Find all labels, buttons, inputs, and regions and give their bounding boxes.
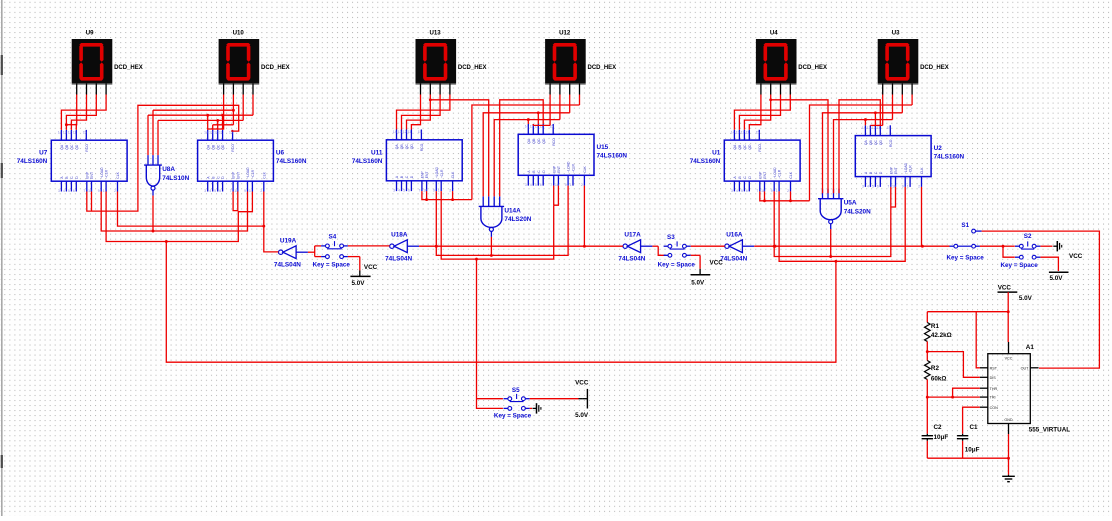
svg-text:U4: U4 <box>770 30 778 37</box>
svg-text:THR: THR <box>990 387 998 391</box>
svg-text:Key = Space: Key = Space <box>494 413 532 420</box>
svg-text:QA: QA <box>206 144 210 150</box>
svg-text:1: 1 <box>103 189 105 193</box>
svg-text:U3: U3 <box>892 30 900 37</box>
svg-text:7: 7 <box>230 189 232 193</box>
svg-text:U12: U12 <box>559 30 571 37</box>
svg-text:4: 4 <box>530 183 532 187</box>
svg-text:CLK: CLK <box>920 167 924 174</box>
svg-text:5: 5 <box>68 189 70 193</box>
svg-text:2: 2 <box>449 189 451 193</box>
svg-text:14: 14 <box>58 130 62 134</box>
svg-text:ENT: ENT <box>894 167 898 174</box>
svg-text:42.2kΩ: 42.2kΩ <box>931 332 952 339</box>
svg-text:ENP: ENP <box>889 166 893 174</box>
svg-text:2: 2 <box>114 189 116 193</box>
svg-text:ENT: ENT <box>557 166 561 173</box>
svg-text:QC: QC <box>537 138 541 144</box>
svg-text:U8A: U8A <box>162 166 175 173</box>
svg-text:QC: QC <box>70 144 74 150</box>
svg-text:5.0V: 5.0V <box>1050 275 1064 282</box>
svg-text:15: 15 <box>418 130 422 134</box>
svg-text:~CLR: ~CLR <box>909 165 913 174</box>
svg-text:11: 11 <box>746 130 750 134</box>
svg-text:QC: QC <box>743 144 747 150</box>
svg-text:9: 9 <box>565 183 567 187</box>
svg-text:11: 11 <box>73 130 77 134</box>
svg-text:1: 1 <box>776 189 778 193</box>
svg-text:S2: S2 <box>1024 233 1032 240</box>
svg-text:QD: QD <box>542 138 546 144</box>
svg-text:CLK: CLK <box>583 165 587 172</box>
svg-text:RCO: RCO <box>889 139 893 147</box>
svg-text:~LOAD: ~LOAD <box>246 167 250 179</box>
svg-text:RCO: RCO <box>85 144 89 152</box>
svg-text:Key = Space: Key = Space <box>313 262 351 269</box>
svg-text:74LS10N: 74LS10N <box>162 175 189 182</box>
svg-text:Key = Space: Key = Space <box>658 262 696 269</box>
svg-text:~LOAD: ~LOAD <box>773 167 777 179</box>
svg-text:TRI: TRI <box>990 396 996 400</box>
svg-text:QA: QA <box>527 138 531 144</box>
svg-text:VCC: VCC <box>364 264 378 271</box>
svg-text:14: 14 <box>862 126 866 130</box>
svg-text:4: 4 <box>209 189 211 193</box>
svg-text:~CLR: ~CLR <box>105 169 109 178</box>
svg-text:VCC: VCC <box>710 260 724 267</box>
svg-text:QC: QC <box>405 144 409 150</box>
svg-text:7: 7 <box>756 189 758 193</box>
svg-text:DCD_HEX: DCD_HEX <box>798 65 827 71</box>
svg-text:11: 11 <box>408 130 412 134</box>
svg-text:QB: QB <box>738 144 742 150</box>
svg-text:1: 1 <box>249 189 251 193</box>
svg-text:15: 15 <box>83 130 87 134</box>
svg-text:74LS160N: 74LS160N <box>17 158 48 165</box>
svg-text:ENP: ENP <box>232 171 236 179</box>
svg-text:ENP: ENP <box>758 171 762 179</box>
svg-text:RCO: RCO <box>758 144 762 152</box>
svg-text:S1: S1 <box>961 222 969 229</box>
svg-text:~LOAD: ~LOAD <box>567 161 571 173</box>
svg-text:7: 7 <box>83 189 85 193</box>
svg-text:CLK: CLK <box>789 171 793 178</box>
svg-text:C1: C1 <box>970 424 979 431</box>
svg-text:6: 6 <box>746 189 748 193</box>
svg-text:15: 15 <box>887 126 891 130</box>
svg-text:ENP: ENP <box>552 165 556 173</box>
svg-text:QA: QA <box>864 139 868 145</box>
svg-text:DCD_HEX: DCD_HEX <box>920 65 949 71</box>
svg-text:14: 14 <box>393 130 397 134</box>
svg-text:74LS160N: 74LS160N <box>934 154 965 161</box>
svg-text:3: 3 <box>204 189 206 193</box>
svg-text:Key = Space: Key = Space <box>1001 262 1039 269</box>
svg-text:QA: QA <box>395 144 399 150</box>
svg-text:9: 9 <box>433 189 435 193</box>
svg-text:5: 5 <box>535 183 537 187</box>
svg-text:14: 14 <box>204 130 208 134</box>
svg-text:U1: U1 <box>712 150 721 157</box>
svg-text:4: 4 <box>736 189 738 193</box>
svg-text:12: 12 <box>214 130 218 134</box>
svg-text:~LOAD: ~LOAD <box>100 167 104 179</box>
svg-text:RST: RST <box>990 366 998 370</box>
svg-text:DCD_HEX: DCD_HEX <box>261 65 290 71</box>
svg-text:QC: QC <box>874 139 878 145</box>
svg-text:10μF: 10μF <box>965 446 980 453</box>
svg-text:3: 3 <box>393 189 395 193</box>
svg-text:4: 4 <box>398 189 400 193</box>
svg-text:CLK: CLK <box>116 171 120 178</box>
svg-text:14: 14 <box>525 125 529 129</box>
svg-text:VCC: VCC <box>998 285 1012 292</box>
svg-text:QD: QD <box>221 144 225 150</box>
svg-text:5: 5 <box>214 189 216 193</box>
svg-text:~CLR: ~CLR <box>572 163 576 172</box>
svg-text:DCD_HEX: DCD_HEX <box>114 65 143 71</box>
svg-text:Key = Space: Key = Space <box>947 254 985 261</box>
svg-text:~LOAD: ~LOAD <box>435 167 439 179</box>
svg-text:2: 2 <box>918 184 920 188</box>
svg-text:2: 2 <box>581 183 583 187</box>
svg-text:11: 11 <box>877 126 881 130</box>
svg-text:OUT: OUT <box>1021 366 1030 370</box>
svg-text:74LS160N: 74LS160N <box>276 158 307 165</box>
svg-text:13: 13 <box>209 130 213 134</box>
svg-text:12: 12 <box>403 130 407 134</box>
svg-text:U6: U6 <box>276 150 285 157</box>
svg-text:7: 7 <box>419 189 421 193</box>
svg-text:60kΩ: 60kΩ <box>931 375 947 382</box>
svg-text:2: 2 <box>787 189 789 193</box>
svg-text:~LOAD: ~LOAD <box>904 162 908 174</box>
svg-text:12: 12 <box>872 126 876 130</box>
svg-text:6: 6 <box>540 183 542 187</box>
svg-text:U7: U7 <box>39 150 48 157</box>
svg-text:4: 4 <box>63 189 65 193</box>
svg-text:QB: QB <box>532 138 536 144</box>
svg-text:13: 13 <box>398 130 402 134</box>
svg-text:9: 9 <box>771 189 773 193</box>
svg-text:QC: QC <box>216 144 220 150</box>
svg-text:ENT: ENT <box>90 172 94 179</box>
svg-text:QB: QB <box>211 144 215 150</box>
svg-text:C2: C2 <box>934 424 943 431</box>
svg-text:A1: A1 <box>1026 344 1035 351</box>
svg-text:6: 6 <box>408 189 410 193</box>
svg-text:U18A: U18A <box>391 232 408 239</box>
svg-text:ENT: ENT <box>236 172 240 179</box>
svg-text:74LS04N: 74LS04N <box>618 256 645 263</box>
svg-text:7: 7 <box>887 184 889 188</box>
svg-text:GND: GND <box>1004 418 1013 422</box>
svg-text:QA: QA <box>60 144 64 150</box>
svg-text:QD: QD <box>879 139 883 145</box>
svg-text:1: 1 <box>907 184 909 188</box>
svg-text:QD: QD <box>410 144 414 150</box>
svg-text:CON: CON <box>990 406 999 410</box>
svg-text:QD: QD <box>748 144 752 150</box>
svg-text:CLK: CLK <box>262 171 266 178</box>
svg-text:U19A: U19A <box>280 238 297 245</box>
svg-text:VCC: VCC <box>575 380 589 387</box>
svg-text:74LS20N: 74LS20N <box>844 209 871 216</box>
svg-text:9: 9 <box>902 184 904 188</box>
svg-text:RCO: RCO <box>231 144 235 152</box>
svg-text:RCO: RCO <box>552 138 556 146</box>
svg-text:CLK: CLK <box>451 171 455 178</box>
svg-text:10μF: 10μF <box>934 434 949 441</box>
svg-text:R2: R2 <box>931 365 940 372</box>
svg-text:5: 5 <box>403 189 405 193</box>
svg-text:5: 5 <box>872 184 874 188</box>
svg-text:U13: U13 <box>430 30 442 37</box>
svg-text:S4: S4 <box>329 234 337 241</box>
svg-text:R1: R1 <box>931 323 940 330</box>
svg-text:3: 3 <box>862 184 864 188</box>
svg-text:U5A: U5A <box>844 200 857 207</box>
svg-text:3: 3 <box>731 189 733 193</box>
svg-text:5.0V: 5.0V <box>691 280 705 287</box>
svg-text:~CLR: ~CLR <box>251 169 255 178</box>
svg-text:U17A: U17A <box>624 232 641 239</box>
svg-text:U2: U2 <box>934 145 943 152</box>
svg-text:QB: QB <box>869 139 873 145</box>
svg-text:5: 5 <box>741 189 743 193</box>
svg-text:2: 2 <box>260 189 262 193</box>
svg-text:QA: QA <box>733 144 737 150</box>
svg-text:U16A: U16A <box>726 232 743 239</box>
svg-text:5.0V: 5.0V <box>1019 295 1033 302</box>
svg-text:12: 12 <box>68 130 72 134</box>
svg-text:U14A: U14A <box>504 207 521 214</box>
svg-text:13: 13 <box>736 130 740 134</box>
svg-text:ENT: ENT <box>763 172 767 179</box>
svg-text:6: 6 <box>219 189 221 193</box>
svg-text:6: 6 <box>73 189 75 193</box>
svg-text:14: 14 <box>731 130 735 134</box>
svg-text:DCD_HEX: DCD_HEX <box>458 65 487 71</box>
svg-text:ENP: ENP <box>85 171 89 179</box>
svg-text:~CLR: ~CLR <box>778 169 782 178</box>
svg-text:13: 13 <box>63 130 67 134</box>
svg-text:ENP: ENP <box>421 171 425 179</box>
svg-text:S5: S5 <box>512 387 520 394</box>
svg-text:4: 4 <box>867 184 869 188</box>
svg-text:~CLR: ~CLR <box>440 169 444 178</box>
svg-text:U15: U15 <box>597 144 609 151</box>
svg-text:11: 11 <box>219 130 223 134</box>
svg-text:ENT: ENT <box>425 172 429 179</box>
svg-text:13: 13 <box>867 126 871 130</box>
svg-text:RCO: RCO <box>420 143 424 151</box>
svg-text:QD: QD <box>75 144 79 150</box>
svg-text:74LS160N: 74LS160N <box>597 152 628 159</box>
svg-text:74LS04N: 74LS04N <box>720 256 747 263</box>
svg-text:9: 9 <box>98 189 100 193</box>
svg-text:1: 1 <box>570 183 572 187</box>
svg-text:QB: QB <box>400 144 404 150</box>
svg-text:U9: U9 <box>86 30 94 37</box>
svg-text:QB: QB <box>65 144 69 150</box>
svg-text:S3: S3 <box>667 234 675 241</box>
svg-text:555_VIRTUAL: 555_VIRTUAL <box>1029 426 1070 433</box>
svg-text:5.0V: 5.0V <box>352 280 366 287</box>
svg-text:DCD_HEX: DCD_HEX <box>588 65 617 71</box>
svg-text:U10: U10 <box>233 30 245 37</box>
svg-text:1: 1 <box>438 189 440 193</box>
svg-text:74LS04N: 74LS04N <box>385 256 412 263</box>
svg-text:74LS160N: 74LS160N <box>352 158 383 165</box>
svg-text:U11: U11 <box>371 149 383 156</box>
svg-text:VCC: VCC <box>1069 253 1083 260</box>
svg-text:3: 3 <box>58 189 60 193</box>
svg-text:7: 7 <box>550 183 552 187</box>
svg-text:74LS160N: 74LS160N <box>690 158 721 165</box>
svg-text:15: 15 <box>756 130 760 134</box>
svg-text:VCC: VCC <box>1005 357 1013 361</box>
svg-text:74LS20N: 74LS20N <box>504 216 531 223</box>
svg-text:5.0V: 5.0V <box>575 412 589 419</box>
svg-text:DIS: DIS <box>990 376 997 380</box>
svg-text:6: 6 <box>877 184 879 188</box>
svg-text:74LS04N: 74LS04N <box>274 262 301 269</box>
svg-text:9: 9 <box>244 189 246 193</box>
svg-text:12: 12 <box>741 130 745 134</box>
svg-text:3: 3 <box>525 183 527 187</box>
